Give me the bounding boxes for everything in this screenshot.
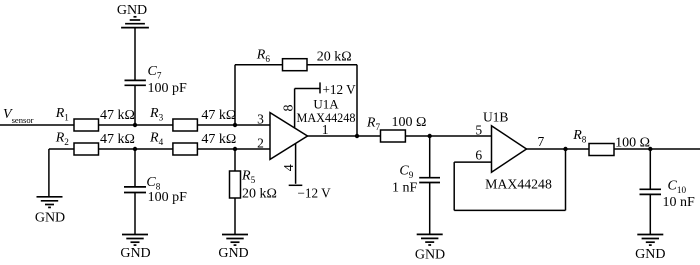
wire (U1B feedback bottom) bbox=[454, 209, 565, 211]
svg-text:47 kΩ: 47 kΩ bbox=[201, 108, 236, 123]
wire (R6 right vertical to U1A output) bbox=[356, 65, 358, 136]
wire (U1A pin 8 power) bbox=[294, 89, 296, 129]
wire (C8 to ground) bbox=[134, 193, 136, 235]
node (row1 / R3-R6 / pin3) bbox=[233, 123, 237, 127]
capacitor C7 bbox=[125, 80, 146, 85]
resistor R4 bbox=[173, 143, 198, 155]
svg-text:100 Ω: 100 Ω bbox=[392, 115, 427, 130]
svg-text:GND: GND bbox=[35, 211, 65, 226]
+12V terminal tick bbox=[319, 82, 321, 93]
wire (top ground to C7) bbox=[134, 28, 136, 81]
svg-text:2: 2 bbox=[257, 136, 264, 151]
ground (left, under R2) bbox=[37, 197, 63, 208]
wire (+12V stub) bbox=[295, 88, 320, 90]
wire (U1B output row through R8 to output) bbox=[527, 148, 700, 150]
capacitor C10 bbox=[640, 189, 662, 194]
svg-text:100 Ω: 100 Ω bbox=[615, 135, 650, 150]
svg-text:20 kΩ: 20 kΩ bbox=[242, 187, 277, 202]
ground (under R5) bbox=[222, 235, 248, 246]
wire (C7 to row 1 node) bbox=[134, 85, 136, 125]
wire (U1B feedback right vertical to output node) bbox=[565, 149, 567, 210]
svg-text:47 kΩ: 47 kΩ bbox=[100, 132, 135, 147]
svg-text:+12 V: +12 V bbox=[323, 82, 357, 97]
resistor R2 bbox=[74, 143, 99, 155]
wire (R7 node down to C9) bbox=[429, 136, 431, 178]
capacitor C9 bbox=[419, 178, 440, 183]
svg-text:1 nF: 1 nF bbox=[392, 180, 418, 195]
resistor R5 (vertical) bbox=[230, 171, 241, 198]
wire (U1B feedback left vertical) bbox=[453, 162, 455, 210]
node (U1B output / feedback) bbox=[563, 147, 567, 151]
node (R7 / C9 / pin5) bbox=[428, 134, 432, 138]
ground (top, above C7, inverted) bbox=[121, 17, 149, 28]
svg-text:GND: GND bbox=[218, 246, 248, 261]
wire (row 2 node down to C8) bbox=[134, 149, 136, 187]
wire (R2 left leg down to ground) bbox=[48, 149, 50, 197]
ground (under C10) bbox=[637, 235, 663, 246]
node (row2 / C8 / R2-R4) bbox=[133, 147, 137, 151]
svg-text:MAX44248: MAX44248 bbox=[485, 177, 552, 192]
wire (R5 to ground) bbox=[234, 198, 236, 235]
wire (R8 node down to C10) bbox=[649, 149, 651, 189]
svg-text:GND: GND bbox=[635, 247, 665, 262]
svg-text:3: 3 bbox=[257, 112, 264, 127]
ground (under C8) bbox=[122, 235, 148, 246]
wire (U1B pin 6) bbox=[454, 161, 491, 163]
resistor R3 bbox=[173, 119, 198, 131]
svg-text:MAX44248: MAX44248 bbox=[297, 111, 356, 125]
-12V terminal bar bbox=[289, 184, 303, 186]
node (row2 / R4-R5 / pin2) bbox=[233, 147, 237, 151]
svg-text:100 pF: 100 pF bbox=[148, 190, 188, 205]
svg-text:100 pF: 100 pF bbox=[148, 81, 188, 96]
op-amp U1A bbox=[270, 113, 308, 160]
wire (row 2 node down to R5) bbox=[234, 149, 236, 171]
svg-text:−12 V: −12 V bbox=[298, 186, 332, 201]
svg-text:5: 5 bbox=[475, 123, 482, 138]
svg-text:U1B: U1B bbox=[483, 109, 509, 124]
resistor R1 bbox=[74, 119, 99, 131]
op-amp U1B bbox=[492, 126, 527, 172]
svg-text:4: 4 bbox=[282, 164, 297, 171]
wire (C9 to ground) bbox=[429, 183, 431, 235]
wire (R6 feedback top row) bbox=[235, 64, 357, 66]
svg-text:47 kΩ: 47 kΩ bbox=[201, 132, 236, 147]
svg-text:6: 6 bbox=[475, 147, 482, 162]
svg-text:GND: GND bbox=[120, 246, 150, 261]
ground (under C9) bbox=[417, 234, 443, 245]
wire (row 2 to U1A pin 2) bbox=[49, 148, 270, 150]
resistor R7 bbox=[381, 130, 406, 142]
wire (U1A output row through R7 to U1B pin 5) bbox=[308, 135, 492, 137]
svg-text:U1A: U1A bbox=[313, 97, 339, 112]
svg-text:GND: GND bbox=[117, 3, 147, 18]
resistor R8 bbox=[589, 144, 614, 156]
wire (R6 left vertical from row 1 node) bbox=[234, 65, 236, 125]
svg-text:20 kΩ: 20 kΩ bbox=[317, 50, 352, 65]
svg-text:GND: GND bbox=[415, 247, 445, 262]
resistor R6 bbox=[283, 59, 308, 71]
svg-text:10 nF: 10 nF bbox=[663, 195, 696, 210]
svg-text:47 kΩ: 47 kΩ bbox=[100, 108, 135, 123]
node (R8 / C10 / output) bbox=[648, 147, 652, 151]
node (row1 / C7 / R1-R3) bbox=[133, 123, 137, 127]
wire (Vsensor row 1 to U1A pin 3) bbox=[0, 124, 270, 126]
capacitor C8 bbox=[124, 187, 146, 193]
wire (C10 to ground) bbox=[649, 194, 651, 234]
svg-text:8: 8 bbox=[281, 105, 296, 112]
wire (U1A pin 4 power) bbox=[295, 144, 297, 184]
svg-text:7: 7 bbox=[538, 134, 545, 149]
node (U1A output / R6 feedback) bbox=[355, 134, 359, 138]
